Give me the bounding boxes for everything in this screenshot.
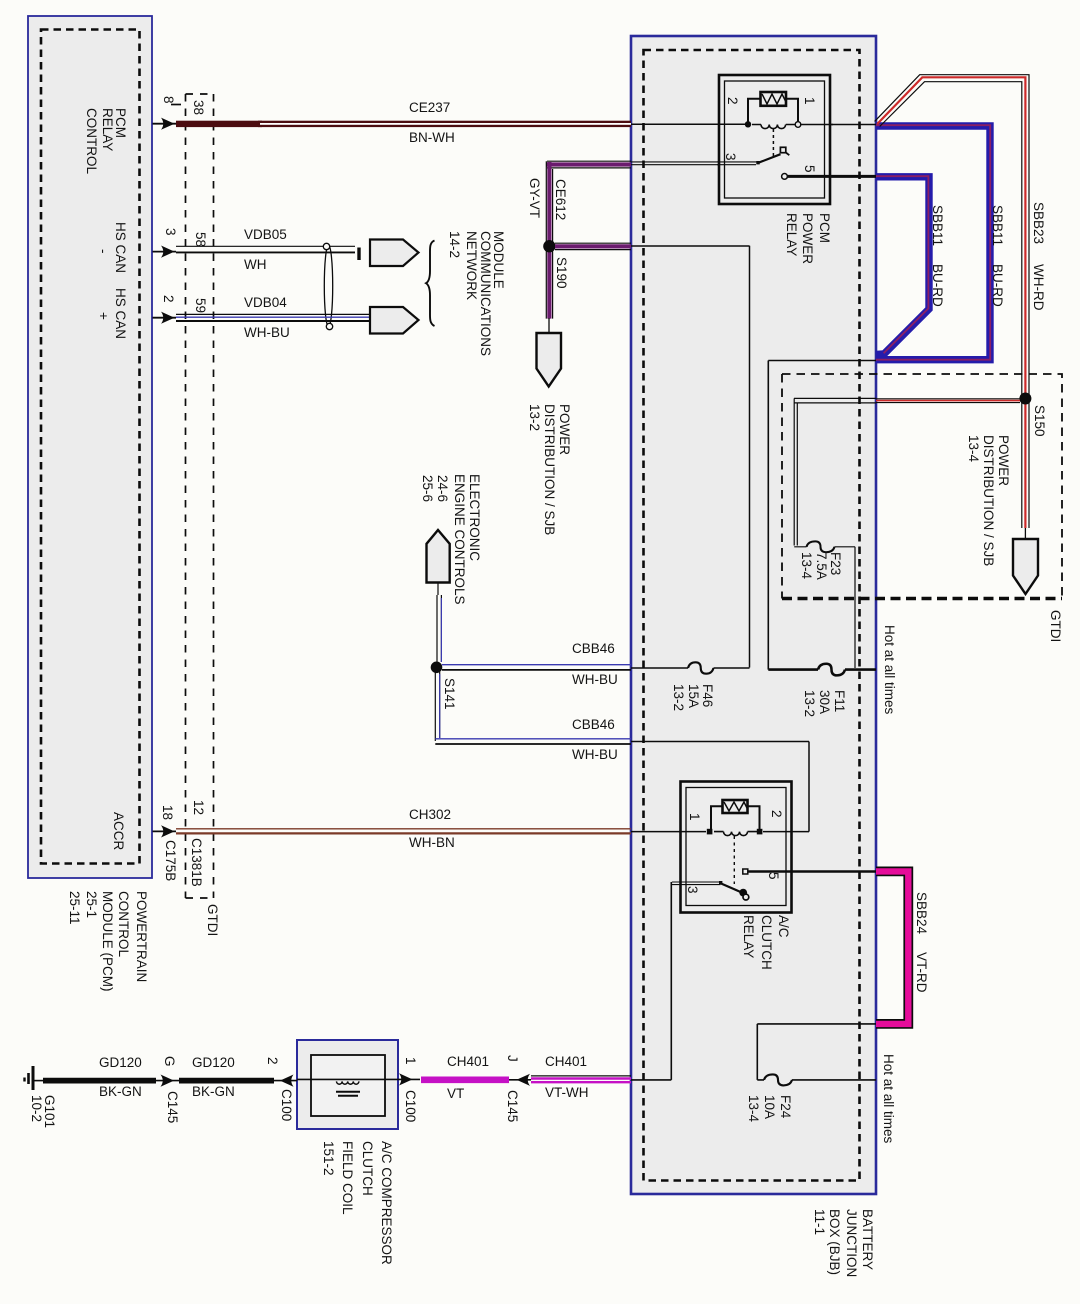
- wire SBB11 BU-RD inner loop from relay pin 5: [876, 176, 929, 354]
- wire S150 to power distribution SJB 13-4 connector: [1024, 528, 1026, 539]
- wire CH401 VT-WH to BJB: [531, 1076, 631, 1082]
- label Hot at all times upper: [882, 625, 896, 714]
- pin number 38: [192, 100, 206, 115]
- label wire VDB05: [244, 228, 287, 242]
- wire GD120 BK-GN segment 1: [43, 1078, 156, 1084]
- wire SBB11 BU-RD outer loop: [876, 125, 990, 360]
- label fuse F24 10A 13-4: [778, 1095, 792, 1118]
- label HS CAN -: [114, 222, 128, 273]
- A/C clutch relay armature dashed link: [733, 836, 735, 884]
- wire CBB46 WH-BU lower from S141 leg to BJB: [435, 738, 631, 740]
- connector C145 pin G arrow: [156, 1080, 179, 1082]
- label splice S150: [1033, 405, 1047, 437]
- label POWER DISTRIBUTION / SJB 13-4: [997, 435, 1011, 486]
- splice S150: [1019, 393, 1031, 405]
- wire CH401 VT: [421, 1077, 509, 1084]
- fuse F46 15A: [688, 662, 714, 673]
- label wire CE612: [554, 179, 568, 220]
- label wire GD120 segment 2: [192, 1056, 235, 1070]
- wire SBB23 WH-RD from pin 1 node diagonal and down to S150: [875, 75, 1029, 528]
- A/C clutch relay switch arm pin 3 to contact: [719, 881, 722, 884]
- wire from EEC connector down to S141: [437, 583, 441, 666]
- A/C clutch relay pin 1 dot: [707, 829, 713, 835]
- wire CE612 GY-VT from relay pin 3 to S190: [546, 161, 757, 318]
- wire pin 3 segment inside PCM power relay: [717, 162, 758, 165]
- label wire SBB11 outer: [990, 205, 1004, 246]
- wire CBB46 inside BJB through fuse F46: [631, 667, 750, 669]
- label fuse F11 30A 13-2: [832, 690, 846, 712]
- connector C100 pin 1 arrow: [399, 1073, 413, 1085]
- A/C clutch relay coil: [714, 832, 757, 836]
- label A/C CLUTCH RELAY: [776, 915, 790, 938]
- wire CH302 segment inside A/C clutch relay to pin 1: [679, 831, 809, 833]
- label fuse F46 15A 13-2: [701, 684, 715, 707]
- wire GD120 BK-GN segment 2: [179, 1078, 274, 1084]
- label wire VDB04: [244, 296, 287, 310]
- wire CH302 WH-BN from ACCR to BJB: [176, 828, 631, 830]
- pin 3 arrow HS CAN minus: [153, 251, 177, 253]
- wire SBB24 VT-RD loop outside BJB: [876, 871, 908, 1024]
- pin number 8: [162, 96, 176, 104]
- fuse F23 7.5A: [807, 541, 835, 552]
- label GTDI right: [1049, 610, 1063, 642]
- fuse F11 30A and hot at all times feed: [768, 668, 876, 671]
- connector C100 pin 2 label: [265, 1057, 279, 1065]
- label POWERTRAIN CONTROL MODULE (PCM): [135, 891, 149, 982]
- wire VDB05 WH: [176, 245, 355, 247]
- splice S141: [431, 662, 443, 674]
- PCM power relay pin 1 contact circle: [795, 122, 801, 128]
- module communications network connector 1: [370, 240, 419, 267]
- label ground G101 10-2: [43, 1095, 57, 1128]
- connector C175B dashed line: [171, 94, 186, 898]
- fuse F24 10A: [764, 1074, 792, 1085]
- wire S150 branch to BJB (to fuse F23): [876, 399, 1020, 403]
- label ACCR: [111, 812, 125, 850]
- wire S190 to power distribution SJB 13-2 connector: [548, 318, 550, 333]
- twisted pair loop: [324, 245, 332, 327]
- battery junction box BJB: [631, 36, 876, 1194]
- wire CE237 BN-WH from pin 8 to BJB: [176, 121, 631, 127]
- wire inside BJB from S150 branch to fuse F23: [794, 398, 876, 668]
- wire CBB46 WH-BU upper from S141 to BJB: [442, 664, 631, 666]
- PCM power relay armature dashed link: [772, 129, 774, 156]
- pin number 59: [193, 298, 207, 313]
- PCM power relay pin 5 contact and wire to BJB edge: [782, 174, 788, 180]
- connector C100 pin 1 label: [403, 1057, 417, 1065]
- wire end tick 1: [357, 248, 360, 261]
- label wire SBB23: [1032, 202, 1046, 244]
- label wire CBB46 lower: [572, 718, 615, 732]
- power distribution SJB 13-2 connector (down pentagon): [537, 333, 562, 387]
- module communications network connector 2: [370, 307, 419, 334]
- PCM power relay switch arm pin 3 to contact: [756, 161, 759, 164]
- PCM power relay resistor: [748, 92, 798, 122]
- A/C clutch relay K2 box: [681, 782, 792, 913]
- A/C clutch relay pin 2 dot: [757, 829, 763, 835]
- wire from A/C relay pin 3 to BJB left edge: [672, 882, 721, 885]
- label PCM RELAY CONTROL: [114, 108, 128, 138]
- connector C145 pin J label: [505, 1055, 519, 1062]
- label splice S190: [555, 257, 569, 289]
- PCM power relay coil: [752, 125, 796, 129]
- A/C clutch relay resistor: [711, 800, 760, 829]
- wire inside BJB from SBB24 to fuse F24: [757, 1024, 876, 1080]
- connector C145 pin G label: [163, 1056, 177, 1067]
- label HS CAN +: [114, 288, 128, 339]
- label splice S141: [442, 678, 456, 710]
- wire VDB04 WH-BU: [176, 313, 370, 315]
- label MODULE COMMUNICATIONS NETWORK 14-2: [492, 231, 506, 289]
- PCM power relay U1 box: [719, 75, 830, 204]
- A/C compressor clutch field coil box: [297, 1040, 398, 1129]
- ground G101: [25, 1066, 44, 1090]
- pin 18 arrow ACCR: [153, 830, 177, 832]
- pin number 3: [163, 228, 177, 236]
- label C175B: [163, 840, 177, 881]
- brace for module communications network: [426, 241, 435, 327]
- pin number 12: [191, 800, 205, 815]
- wire CE237 inside BJB to PCM power relay pin 2 and pin 1 to right edge: [631, 123, 876, 125]
- connector C1381B dashed line (GTDI): [186, 94, 214, 898]
- label fuse F23 7.5A 13-4: [828, 552, 842, 575]
- electronic engine controls connector (up pentagon): [427, 530, 450, 583]
- pin number 18: [160, 805, 174, 820]
- wire pin2 pin1 segments inside PCM power relay: [717, 123, 833, 125]
- GTDI dashed box (power distribution region): [782, 374, 1062, 599]
- PCM relay pin numbers: [725, 97, 739, 105]
- label BATTERY JUNCTION BOX (BJB) 11-1: [860, 1209, 874, 1270]
- connector C100 pin 2 arrow: [274, 1080, 297, 1082]
- splice S190: [543, 240, 555, 252]
- label wire CH401 VT: [447, 1055, 489, 1069]
- pin 8 arrow PCM RELAY CONTROL: [153, 123, 177, 125]
- pin number 2: [161, 295, 175, 303]
- label A/C COMPRESSOR CLUTCH FIELD COIL 151-2: [380, 1141, 394, 1265]
- pin number 58: [193, 232, 207, 247]
- label PCM POWER RELAY: [817, 213, 831, 243]
- pin 2 arrow HS CAN plus: [153, 317, 177, 319]
- wire S190 branch to BJB (to fuse F46): [555, 243, 631, 249]
- wire CH302 inside BJB to A/C clutch relay pin 1: [631, 831, 708, 833]
- label GTDI lower: [205, 904, 219, 936]
- label C1381B: [190, 838, 204, 887]
- wire through field coil box: [297, 1078, 420, 1080]
- A/C relay pin numbers: [687, 813, 701, 821]
- label Hot at all times lower: [881, 1054, 895, 1143]
- A/C compressor clutch field coil winding: [336, 1081, 360, 1095]
- wire S141 down leg: [435, 672, 439, 741]
- label ELECTRONIC ENGINE CONTROLS 24-6 25-6: [467, 474, 481, 561]
- label wire GD120 segment 1: [99, 1056, 142, 1070]
- PCM power relay pin 2 junction dot: [745, 121, 751, 127]
- label POWER DISTRIBUTION / SJB 13-2: [557, 404, 571, 455]
- power distribution SJB 13-4 connector (down pentagon): [1013, 539, 1038, 594]
- connector C145 pin J arrow: [509, 1079, 531, 1081]
- wire SBB11 return inside BJB to fuse F11: [768, 361, 876, 670]
- label wire CH302: [409, 808, 451, 822]
- label wire CE237: [409, 101, 450, 115]
- wire inside BJB from S190 branch down to F46: [631, 246, 750, 668]
- label wire CH401 VT-WH: [545, 1055, 587, 1069]
- label wire SBB11 inner: [930, 205, 944, 246]
- A/C clutch relay pin 5 contact and wire to BJB edge: [743, 869, 748, 874]
- wire CBB46 lower inside BJB to A/C clutch relay pin 2: [631, 742, 809, 832]
- label wire SBB24: [914, 892, 928, 934]
- powertrain control module PCM box: [28, 16, 152, 878]
- label wire CBB46 upper: [572, 642, 615, 656]
